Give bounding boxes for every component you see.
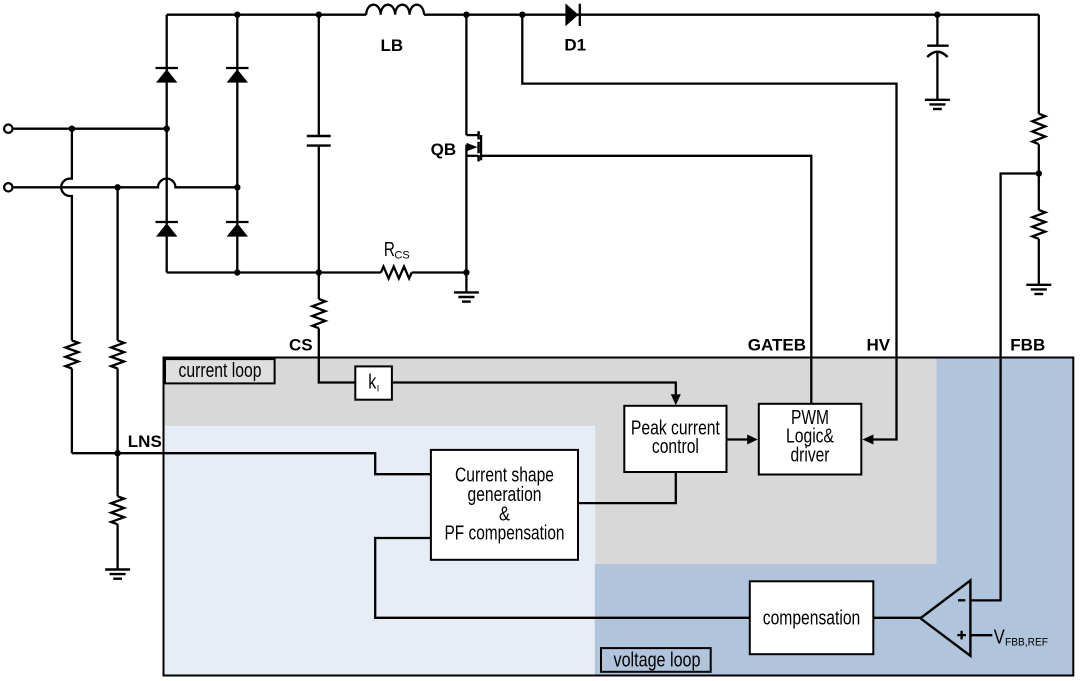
wire bottom bus — [167, 271, 381, 273]
junction top bus at QB drain — [463, 12, 469, 18]
current loop region (gray top band) — [164, 358, 938, 428]
arrowhead HV into PWM right — [863, 435, 874, 445]
bridge diode top-right — [226, 68, 248, 83]
svg-text:HV: HV — [867, 336, 891, 355]
svg-text:LB: LB — [381, 36, 404, 55]
arrowhead into PWM left — [747, 435, 758, 445]
resistor RCS — [381, 267, 412, 279]
junction live input sense — [69, 126, 75, 132]
arrowhead into peak current control — [671, 394, 681, 405]
bridge diode bottom-left — [156, 222, 178, 237]
wire current shape output to peak current control — [578, 472, 676, 503]
wire left sense branch with hop — [61, 129, 72, 341]
bridge right leg wire — [236, 15, 238, 273]
current loop label box — [165, 359, 275, 383]
junction top bus at bridge right leg — [234, 12, 240, 18]
wire neutral sense branch — [116, 187, 118, 340]
svg-text:LNS: LNS — [128, 432, 162, 451]
svg-text:I: I — [377, 384, 380, 394]
ground output divider — [1026, 285, 1051, 294]
wire terminal2 to bridge with hop — [13, 179, 238, 188]
bulk capacitor branch wire upper — [318, 15, 320, 136]
junction node LNS — [114, 450, 120, 456]
kI gain box — [355, 366, 392, 399]
wire output divider top — [1038, 15, 1040, 114]
svg-text:CS: CS — [394, 250, 409, 262]
inner loop region (light blue block) — [164, 426, 596, 676]
junction live at bridge left leg — [164, 126, 170, 132]
bridge diode top-left — [156, 68, 178, 83]
svg-text:CS: CS — [289, 336, 313, 355]
wire LNS into controller — [72, 453, 431, 474]
wire CS branch upper — [318, 273, 320, 300]
PWM logic driver box — [759, 404, 862, 475]
resistor left sense 1 — [65, 341, 78, 369]
svg-text:GATEB: GATEB — [748, 336, 806, 355]
diode D1 — [565, 3, 579, 26]
op-amp error amplifier — [920, 580, 970, 655]
resistor divider lower — [1032, 210, 1045, 239]
bridge diode bottom-right — [226, 222, 248, 237]
bulk capacitor — [307, 136, 331, 146]
output capacitor stem — [936, 53, 938, 100]
wire top bus right — [424, 14, 1039, 16]
ground QB source — [454, 273, 479, 302]
transistor QB — [466, 131, 481, 161]
input terminal 1 — [4, 125, 12, 133]
wire RCS to QB source — [412, 271, 467, 273]
minus input sign — [958, 599, 965, 601]
current shape generation box — [431, 450, 578, 560]
junction output bus at output capacitor — [934, 12, 940, 18]
output capacitor — [927, 46, 949, 57]
ground output capacitor — [925, 100, 950, 109]
resistor neutral sense — [111, 341, 124, 369]
svg-text:V: V — [994, 626, 1006, 648]
wire FBB tap — [970, 174, 1038, 601]
svg-text:PF compensation: PF compensation — [445, 523, 565, 545]
svg-text:voltage loop: voltage loop — [614, 650, 701, 672]
wire plus input VFBBREF — [970, 634, 992, 636]
wire neutral sense to LNS node — [116, 369, 118, 497]
peak current control box — [624, 406, 726, 472]
svg-text:driver: driver — [791, 444, 830, 466]
junction bottom bus at QB source — [463, 269, 469, 275]
junction bottom bus at CS branch — [316, 269, 322, 275]
svg-text:control: control — [652, 436, 699, 458]
wire HV branch — [522, 15, 896, 440]
input terminal 2 — [4, 183, 12, 191]
wire CS into controller to kI — [319, 328, 356, 382]
PWM logic driver text — [786, 407, 835, 467]
svg-text:current loop: current loop — [179, 360, 262, 382]
junction bottom bus at bridge right leg — [234, 269, 240, 275]
wire QB gate to GATEB — [481, 156, 812, 404]
svg-text:FBB,REF: FBB,REF — [1005, 636, 1048, 648]
transistor QB source wire — [465, 145, 467, 273]
wire error amp output to compensation — [873, 617, 920, 619]
voltage loop region (dark blue right column) — [937, 358, 1074, 676]
compensation box — [750, 581, 874, 654]
resistor below LNS node — [111, 496, 124, 524]
output capacitor branch wire — [936, 15, 938, 45]
transistor QB drain wire — [465, 15, 467, 135]
wire top bus left — [167, 14, 367, 16]
junction top bus at HV branch — [519, 12, 525, 18]
junction neutral at bridge right leg — [234, 184, 240, 190]
wire kI to peak current control — [392, 383, 676, 396]
voltage loop label box — [601, 648, 711, 672]
current loop region (gray middle block) — [594, 426, 938, 566]
junction top bus at bulk capacitor — [316, 12, 322, 18]
svg-text:FBB: FBB — [1010, 336, 1045, 355]
svg-text:compensation: compensation — [763, 608, 861, 630]
resistor CS — [312, 299, 325, 328]
svg-text:QB: QB — [431, 140, 457, 159]
wire compensation to current shape lower input — [375, 538, 750, 618]
bridge left leg wire — [166, 15, 168, 273]
wire divider to ground — [1038, 239, 1040, 285]
plus input sign — [957, 631, 966, 640]
junction neutral sense — [114, 184, 120, 190]
resistor divider upper — [1032, 114, 1045, 144]
svg-text:D1: D1 — [564, 36, 586, 55]
svg-text:R: R — [384, 239, 395, 261]
voltage loop region (dark blue bottom block) — [595, 564, 938, 675]
ground LNS divider — [105, 570, 130, 579]
peak current control text — [631, 418, 720, 459]
wire divider middle — [1038, 144, 1040, 210]
wire left sense to LNS — [71, 369, 73, 454]
wire terminal1 to bridge — [13, 128, 167, 130]
wire peak current control to PWM — [727, 438, 749, 440]
junction FBB divider tap — [1036, 170, 1042, 176]
inductor LB — [366, 5, 424, 15]
controller outer box — [164, 358, 1074, 676]
bulk capacitor branch wire lower — [318, 146, 320, 273]
current shape generation text — [445, 465, 565, 545]
wire to LNS ground — [116, 524, 118, 569]
